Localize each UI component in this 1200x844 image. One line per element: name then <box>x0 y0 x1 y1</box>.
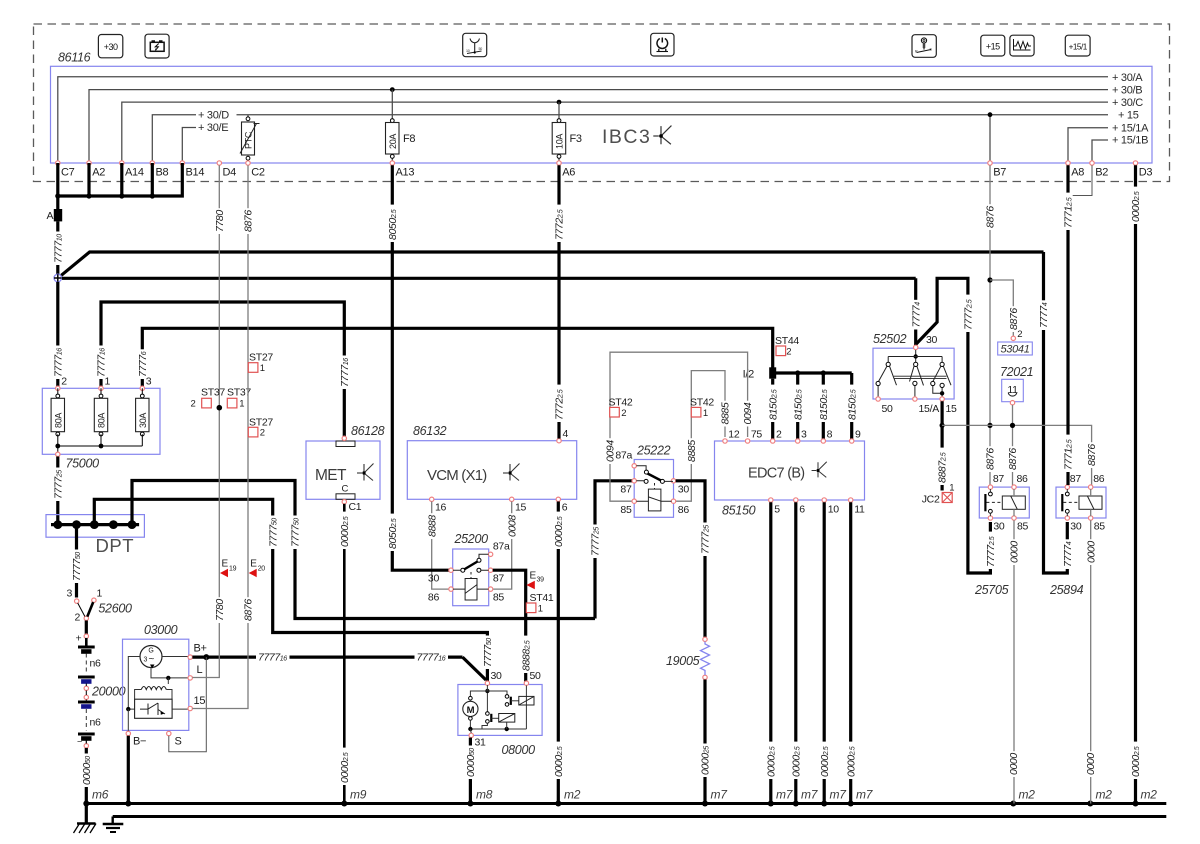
svg-text:80A: 80A <box>97 413 107 428</box>
connector ST27 pin2 <box>248 417 273 439</box>
svg-text:8885: 8885 <box>720 402 732 424</box>
svg-text:E: E <box>222 559 229 570</box>
svg-text:3: 3 <box>67 588 73 600</box>
wire 0000 2.5 EDC7 pin11 to m7 <box>845 502 857 803</box>
wire 7777 2.5 from 52502 pin30 to relay 25705 pin30 <box>916 278 997 573</box>
connector ST37 <box>191 387 252 411</box>
wire 7777 16 alternator B+ to starter <box>192 652 486 680</box>
svg-text:+30: +30 <box>104 42 118 52</box>
wire 8150 2.5 to EDC7 pin9 <box>846 373 858 439</box>
svg-text:1: 1 <box>949 483 954 494</box>
svg-text:m2: m2 <box>1096 788 1113 802</box>
svg-text:10: 10 <box>828 504 840 516</box>
svg-text:+ 15/1A: + 15/1A <box>1112 122 1149 134</box>
svg-text:+: + <box>76 633 82 645</box>
svg-text:20000: 20000 <box>91 685 126 699</box>
svg-text:m7: m7 <box>711 788 729 802</box>
svg-text:IBC3: IBC3 <box>602 126 651 148</box>
svg-text:m7: m7 <box>801 788 819 802</box>
svg-text:PTC: PTC <box>244 131 254 149</box>
svg-text:16: 16 <box>435 502 447 514</box>
svg-text:30: 30 <box>428 573 440 585</box>
svg-text:8876: 8876 <box>1007 448 1019 470</box>
svg-text:31: 31 <box>475 737 487 749</box>
svg-text:2: 2 <box>621 408 626 419</box>
svg-text:ST27: ST27 <box>249 352 273 364</box>
svg-text:25894: 25894 <box>1049 583 1084 597</box>
svg-text:87a: 87a <box>493 541 510 553</box>
svg-text:C: C <box>342 484 349 495</box>
node m7 EDC pins <box>768 788 874 807</box>
svg-text:10: 10 <box>466 49 470 53</box>
svg-text:87a: 87a <box>615 450 632 462</box>
wire 0000 2.5 EDC7 pin6 to m7 <box>790 502 802 803</box>
fuse link A <box>47 196 63 222</box>
svg-text:50: 50 <box>479 47 483 51</box>
svg-text:I/2: I/2 <box>743 369 755 381</box>
wire 7777 25 75000 to DPT <box>52 457 64 522</box>
svg-text:0000: 0000 <box>1009 541 1021 563</box>
wire 8876 C2 to alternator 15 <box>192 165 254 708</box>
svg-text:25200: 25200 <box>454 532 489 546</box>
wire 0000 relay 25705 pin85 to m2 <box>1008 520 1021 803</box>
svg-text:A14: A14 <box>125 167 144 179</box>
svg-text:19005: 19005 <box>666 654 700 668</box>
svg-text:08000: 08000 <box>502 743 536 757</box>
svg-text:B2: B2 <box>1095 167 1108 179</box>
IBC3 connector pins C7 A2 A14 B8 B14 D4 C2 A13 A6 B7 A8 B2 D3 <box>56 161 1153 179</box>
svg-text:80A: 80A <box>53 413 63 428</box>
wire 0094 EDC7 pin75 to relay 25222 pin85 <box>605 352 755 501</box>
net +30/E <box>182 122 228 163</box>
net +15/1B <box>1092 135 1148 163</box>
svg-text:MET: MET <box>315 467 347 484</box>
svg-text:+15: +15 <box>986 41 1000 51</box>
svg-text:15: 15 <box>194 695 206 707</box>
svg-text:1: 1 <box>260 363 265 374</box>
net +15 <box>237 109 1139 163</box>
svg-text:7780: 7780 <box>214 599 226 621</box>
fuse PTC <box>240 115 260 163</box>
svg-text:52502: 52502 <box>873 332 907 346</box>
wire 0000 alternator B- to ground <box>125 736 131 807</box>
alternator 03000 <box>123 623 207 748</box>
ground symbol chassis <box>74 804 97 834</box>
ground bus m <box>86 802 1166 805</box>
svg-text:9: 9 <box>855 429 861 441</box>
svg-text:8876: 8876 <box>985 206 997 228</box>
wire 0000 relay 25894 pin85 to m2 <box>1085 520 1097 803</box>
svg-text:85150: 85150 <box>722 504 756 518</box>
svg-text:M: M <box>467 705 475 716</box>
svg-text:8876: 8876 <box>1086 444 1098 466</box>
wire 0000 2.5 MET C1 to m9 <box>339 504 351 804</box>
svg-text:15: 15 <box>515 502 527 514</box>
icon gauge <box>463 33 487 56</box>
svg-text:DPT: DPT <box>96 535 135 556</box>
svg-text:15: 15 <box>946 403 958 415</box>
svg-text:11: 11 <box>854 504 865 516</box>
svg-text:VCM (X1): VCM (X1) <box>427 467 487 484</box>
wire 8050 2.5 A13 to relay 25200 pin30 <box>387 165 450 570</box>
unit 86116 label <box>58 51 91 65</box>
svg-text:+ 15: + 15 <box>1118 109 1139 121</box>
svg-text:JC2: JC2 <box>922 494 940 506</box>
svg-text:2: 2 <box>260 428 265 439</box>
svg-text:2: 2 <box>61 376 67 388</box>
net +30/C <box>122 97 1143 163</box>
svg-text:8: 8 <box>827 429 833 441</box>
svg-text:m2: m2 <box>1141 788 1158 802</box>
wire 8150 2.5 to EDC7 pin2 <box>767 379 779 439</box>
svg-text:8876: 8876 <box>243 210 255 232</box>
svg-text:D3: D3 <box>1139 167 1153 179</box>
svg-text:72021: 72021 <box>1000 365 1033 379</box>
svg-text:50: 50 <box>882 403 894 415</box>
svg-text:2: 2 <box>776 429 782 441</box>
wire alternator S to B+ <box>169 657 207 752</box>
diode box 53041 <box>998 329 1033 356</box>
svg-text:87: 87 <box>620 484 632 496</box>
terminal I/2 <box>743 367 777 380</box>
control unit EDC7 85150 <box>715 429 865 518</box>
connector ST42 pin2 <box>609 397 633 419</box>
svg-text:A8: A8 <box>1071 167 1084 179</box>
svg-text:15/A: 15/A <box>919 403 940 415</box>
wire 7777 4 to switch 52502 pin30 <box>910 278 922 345</box>
svg-text:+ 30/B: + 30/B <box>1112 84 1142 96</box>
svg-text:87: 87 <box>493 573 505 585</box>
svg-text:~: ~ <box>149 654 155 665</box>
svg-text:D4: D4 <box>223 167 237 179</box>
wire 0000 2.5 VCM6 to m2 <box>553 502 565 804</box>
starter motor 08000 <box>458 670 542 757</box>
svg-text:2: 2 <box>75 612 81 624</box>
svg-text:L: L <box>197 664 203 676</box>
svg-text:C7: C7 <box>61 167 75 179</box>
node m2 relays <box>1010 788 1157 807</box>
ground bus 2 <box>113 815 1167 818</box>
svg-text:86: 86 <box>678 504 690 516</box>
node m2 VCM <box>555 788 580 807</box>
svg-text:53041: 53041 <box>1000 344 1029 356</box>
svg-text:m7: m7 <box>830 788 848 802</box>
svg-text:F3: F3 <box>570 133 582 145</box>
svg-text:+ 30/A: + 30/A <box>1112 72 1143 84</box>
svg-text:8876: 8876 <box>243 599 255 621</box>
svg-text:12: 12 <box>728 429 740 441</box>
wire 8150 2.5 to EDC7 pin3 <box>792 373 804 439</box>
svg-text:B−: B− <box>133 736 146 748</box>
svg-text:3: 3 <box>801 429 807 441</box>
wire battery positive <box>76 621 89 645</box>
svg-text:n6: n6 <box>90 717 102 729</box>
svg-text:8888: 8888 <box>426 515 438 537</box>
net +30/A <box>58 72 1143 163</box>
svg-text:C2: C2 <box>251 167 265 179</box>
svg-text:87: 87 <box>993 473 1005 485</box>
wire 0000 2.5 EDC7 pin10 to m7 <box>819 502 831 803</box>
wire 7771 2.5 A8 B2 to relay 25894 pin87 <box>1063 165 1092 485</box>
icon +15/1 <box>1065 35 1090 56</box>
svg-text:86128: 86128 <box>351 424 385 438</box>
svg-text:2: 2 <box>786 347 791 358</box>
marker E19 <box>220 559 237 578</box>
svg-text:+15/1: +15/1 <box>1069 42 1088 51</box>
wire 7777 50 DPT to bus 616 <box>132 481 595 619</box>
svg-text:m9: m9 <box>350 788 367 802</box>
wire 8876 branch to diode 53041 <box>990 280 1020 336</box>
connector ST42 pin1 <box>690 397 714 419</box>
icon +30 <box>98 35 122 58</box>
svg-text:0000: 0000 <box>1008 753 1020 775</box>
svg-text:1: 1 <box>538 604 543 615</box>
svg-text:7780: 7780 <box>214 210 226 232</box>
wire 8876 interlink <box>942 405 1098 485</box>
svg-text:86132: 86132 <box>413 424 447 438</box>
icon battery <box>145 34 169 58</box>
net +30/B <box>89 84 1142 163</box>
wire 8885 EDC7 pin12 to relay 25222 pin86 <box>675 371 732 502</box>
svg-text:20A: 20A <box>388 134 398 149</box>
svg-text:A6: A6 <box>562 167 575 179</box>
node splice terminal <box>54 274 62 282</box>
svg-text:B+: B+ <box>194 643 207 655</box>
node m7 resistor <box>702 788 728 807</box>
svg-text:ST41: ST41 <box>530 592 554 604</box>
wire 7777 bus upper <box>61 252 1043 275</box>
svg-text:39: 39 <box>537 577 545 584</box>
relay 25222 <box>615 444 689 518</box>
node m6 <box>83 788 108 807</box>
unit 86116 box <box>51 66 1153 163</box>
fusebox 75000 <box>42 376 160 455</box>
svg-text:86: 86 <box>428 592 440 604</box>
svg-text:75000: 75000 <box>66 457 100 471</box>
svg-text:30: 30 <box>491 670 503 682</box>
svg-text:+ 30/C: + 30/C <box>1112 97 1143 109</box>
wire 8888 VCM16 to relay 25200 pin86 <box>426 502 449 590</box>
ignition switch 52502 <box>873 332 957 415</box>
battery 20000 <box>77 638 126 748</box>
svg-text:ST42: ST42 <box>690 397 714 409</box>
svg-text:85: 85 <box>620 504 632 516</box>
svg-text:87: 87 <box>1070 473 1082 485</box>
svg-text:m7: m7 <box>856 788 874 802</box>
svg-text:30: 30 <box>678 484 690 496</box>
svg-text:ST37: ST37 <box>201 387 225 399</box>
svg-text:6: 6 <box>799 504 805 516</box>
connector JC2 <box>922 483 955 506</box>
svg-text:S: S <box>175 736 182 748</box>
wire 7777 25 bus 616 to relay 25222 pin87 <box>590 481 633 619</box>
svg-text:m2: m2 <box>1019 788 1036 802</box>
svg-text:86: 86 <box>1017 473 1029 485</box>
switch 52600 <box>67 588 133 624</box>
svg-text:C1: C1 <box>349 501 362 513</box>
svg-text:m8: m8 <box>476 788 493 802</box>
svg-text:0094: 0094 <box>742 402 754 424</box>
buzzer 72021 <box>1000 365 1033 405</box>
svg-text:85: 85 <box>493 592 505 604</box>
svg-text:50: 50 <box>530 670 542 682</box>
svg-text:A2: A2 <box>92 167 105 179</box>
svg-text:4: 4 <box>563 428 569 440</box>
icon +15 <box>981 35 1005 56</box>
wire 8888 2.5 relay 25200 pin87 to starter 50 <box>493 570 533 681</box>
gauge unit MET 86128 <box>306 424 385 513</box>
svg-text:ST42: ST42 <box>609 397 633 409</box>
wire 0000 2.5 D3 to m2 <box>1130 165 1142 803</box>
net +15/1A <box>1068 122 1149 163</box>
wire 0000 25 resistor 19005 to m7 <box>700 680 712 804</box>
svg-text:25222: 25222 <box>636 444 671 458</box>
svg-text:m6: m6 <box>92 788 109 802</box>
svg-text:n6: n6 <box>90 658 102 670</box>
svg-text:03000: 03000 <box>144 623 178 637</box>
svg-text:E: E <box>250 559 257 570</box>
svg-text:1: 1 <box>97 588 103 600</box>
svg-text:+ 30/D: + 30/D <box>198 110 229 122</box>
svg-text:25705: 25705 <box>974 583 1009 597</box>
svg-text:30: 30 <box>1070 521 1082 533</box>
svg-text:8876: 8876 <box>985 448 997 470</box>
svg-text:3: 3 <box>146 376 152 388</box>
svg-text:52600: 52600 <box>98 602 132 616</box>
svg-text:0000: 0000 <box>1085 541 1097 563</box>
wire 7777 25 relay 25222 pin30 to resistor 19005 <box>676 481 712 637</box>
marker E20 <box>249 559 266 578</box>
wire 7772 2.5 A6 to VCM pin4 <box>554 165 566 438</box>
svg-text:8885: 8885 <box>686 440 698 462</box>
svg-text:m2: m2 <box>564 788 581 802</box>
svg-text:−: − <box>77 737 82 747</box>
net +30/D <box>152 110 229 164</box>
busbar DPT <box>46 515 144 538</box>
resistor 19005 <box>666 637 710 679</box>
svg-text:A13: A13 <box>396 167 415 179</box>
wire 7777 50 DPT to starter bus <box>94 499 494 681</box>
svg-text:+ 15/1B: + 15/1B <box>1112 135 1148 147</box>
fuse F3 10A <box>552 102 582 163</box>
svg-text:2: 2 <box>191 399 196 410</box>
svg-text:0008: 0008 <box>506 515 518 537</box>
svg-text:B8: B8 <box>156 167 169 179</box>
node m8 <box>467 788 492 807</box>
wire 7777 16 bus to MET <box>96 302 351 437</box>
svg-text:ST44: ST44 <box>775 335 799 347</box>
svg-text:E: E <box>530 571 537 582</box>
connector ST27 pin1 <box>248 352 273 375</box>
svg-text:1: 1 <box>105 376 111 388</box>
connector ST41 <box>526 592 554 615</box>
relay 25894 <box>1049 473 1106 597</box>
svg-text:EDC7 (B): EDC7 (B) <box>748 466 804 482</box>
svg-text:m7: m7 <box>776 788 794 802</box>
wire 7777 bus lower <box>62 277 916 280</box>
ground symbol earth <box>103 817 124 833</box>
wire 7777 6 bus to I/2 <box>137 328 773 386</box>
wire 0008 VCM15 to relay 25200 pin85 <box>492 502 518 590</box>
svg-text:1: 1 <box>703 408 708 419</box>
svg-text:+ 30/E: + 30/E <box>198 122 228 134</box>
wire 8150 bus from I/2 <box>776 370 852 375</box>
wire 7777 50 DPT to battery switch 52600 <box>71 528 83 598</box>
wire 8876 B7 to relay 25705 pin87 <box>985 165 997 485</box>
svg-text:A: A <box>47 210 54 222</box>
marker E39 <box>526 571 544 590</box>
wire 7777 4 to relay 25894 pin30 <box>1038 252 1074 573</box>
busbar DPT label <box>96 535 135 556</box>
svg-text:1: 1 <box>239 399 244 410</box>
wire 0000 2.5 EDC7 pin5 to m7 <box>765 502 777 803</box>
wire 0000 50 battery to ground <box>81 740 93 804</box>
svg-text:86: 86 <box>1093 473 1105 485</box>
svg-text:2: 2 <box>1017 329 1022 340</box>
svg-text:5: 5 <box>774 504 780 516</box>
wire 8150 2.5 to EDC7 pin8 <box>818 373 830 439</box>
svg-text:19: 19 <box>229 566 237 573</box>
svg-text:75: 75 <box>751 429 763 441</box>
svg-text:3: 3 <box>144 657 148 664</box>
icon key-switch <box>912 35 936 58</box>
relay 25705 <box>974 473 1029 597</box>
svg-text:B7: B7 <box>993 167 1006 179</box>
wire 7777 battery feed bus below connector <box>55 163 182 199</box>
IBC3 central unit outer dashed boundary <box>34 24 1170 182</box>
svg-text:30A: 30A <box>138 413 148 428</box>
wire 0000 50 starter 31 to m8 <box>465 738 477 804</box>
fuse F8 20A <box>386 90 416 163</box>
connector ST44 <box>775 335 799 358</box>
wire 7777 10 <box>52 221 64 274</box>
svg-text:20: 20 <box>258 566 266 573</box>
wire 7777 16 down to fuse 75000 pin2 <box>52 282 64 387</box>
relay 25200 <box>428 532 510 606</box>
IBC3 label <box>602 126 671 148</box>
svg-text:10A: 10A <box>555 134 565 149</box>
svg-text:0000: 0000 <box>1085 753 1097 775</box>
svg-text:30: 30 <box>926 334 938 346</box>
fusebox 75000 label <box>56 452 100 470</box>
svg-text:85: 85 <box>1094 521 1106 533</box>
icon engine <box>651 33 674 56</box>
svg-text:86116: 86116 <box>58 51 91 65</box>
icon resistor waveform <box>1010 35 1034 56</box>
wire 7780 D4 to alternator L <box>192 165 226 677</box>
svg-text:30: 30 <box>993 521 1005 533</box>
svg-text:85: 85 <box>1017 521 1029 533</box>
node m9 <box>341 788 366 807</box>
svg-text:F8: F8 <box>403 133 415 145</box>
svg-text:8876: 8876 <box>1008 308 1020 330</box>
control unit VCM 86132 <box>407 424 576 514</box>
svg-text:B14: B14 <box>186 167 205 179</box>
wire 8887 2.5 switch 52502 pin15 <box>937 401 949 490</box>
